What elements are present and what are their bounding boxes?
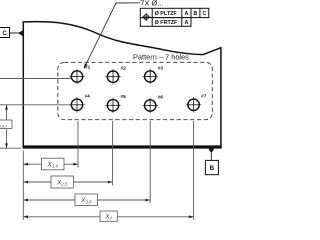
svg-text:Ø FRTZF: Ø FRTZF bbox=[155, 20, 178, 26]
hole #3 bbox=[142, 65, 163, 84]
dimension line X7 bbox=[23, 211, 193, 221]
svg-text:A: A bbox=[184, 11, 188, 17]
dimension line X2,5 bbox=[23, 176, 112, 188]
leader from note to hole #1 bbox=[84, 3, 140, 69]
svg-text:#4: #4 bbox=[85, 94, 91, 100]
feature control frame (composite position) bbox=[140, 8, 209, 26]
svg-text:#2: #2 bbox=[121, 66, 127, 72]
pattern boundary (dashed) bbox=[58, 62, 213, 119]
hole #6 bbox=[142, 94, 163, 113]
svg-text:Ø PLTZF: Ø PLTZF bbox=[155, 11, 178, 17]
svg-text:B: B bbox=[210, 165, 215, 172]
svg-text:A: A bbox=[184, 20, 188, 26]
svg-text:C: C bbox=[2, 30, 7, 37]
hole #4 bbox=[69, 94, 90, 113]
part bottom edge (datum B surface, thick) bbox=[23, 145, 222, 148]
extension line hole 7 column bbox=[193, 121, 195, 220]
vertical dimension line Y (left) bbox=[6, 105, 8, 148]
svg-text:#7: #7 bbox=[201, 94, 207, 100]
hole #1 bbox=[69, 64, 90, 84]
svg-text:#6: #6 bbox=[158, 94, 164, 100]
datum B bbox=[205, 149, 218, 175]
hole #2 bbox=[105, 66, 126, 85]
svg-text:Pattern – 7 holes: Pattern – 7 holes bbox=[133, 52, 189, 61]
part outline bbox=[23, 22, 221, 148]
hole #7 bbox=[186, 94, 207, 113]
hole #5 bbox=[105, 94, 126, 113]
position symbol bbox=[142, 13, 150, 21]
svg-text:#3: #3 bbox=[158, 65, 164, 71]
svg-text:#5: #5 bbox=[121, 94, 127, 100]
extension line hole column 1 bbox=[77, 121, 79, 168]
dimension line X3,6 bbox=[23, 194, 150, 206]
extension line hole column 2 bbox=[112, 121, 114, 186]
svg-text:C: C bbox=[202, 11, 206, 17]
centerline top hole row (extends left) bbox=[0, 78, 71, 80]
svg-text:7X Ø...: 7X Ø... bbox=[140, 0, 163, 7]
dimension line X1,4 bbox=[23, 158, 78, 170]
extension line hole column 3 bbox=[149, 121, 151, 203]
extension line left of bottom corner bbox=[0, 147, 21, 149]
svg-text:B: B bbox=[193, 11, 197, 17]
extension line below part bottom-left corner bbox=[22, 151, 24, 221]
label box Y4,5,6,7 (clipped at left edge) bbox=[0, 120, 12, 129]
centerline bottom hole row (extends left) bbox=[0, 104, 71, 106]
datum C bbox=[0, 28, 23, 38]
